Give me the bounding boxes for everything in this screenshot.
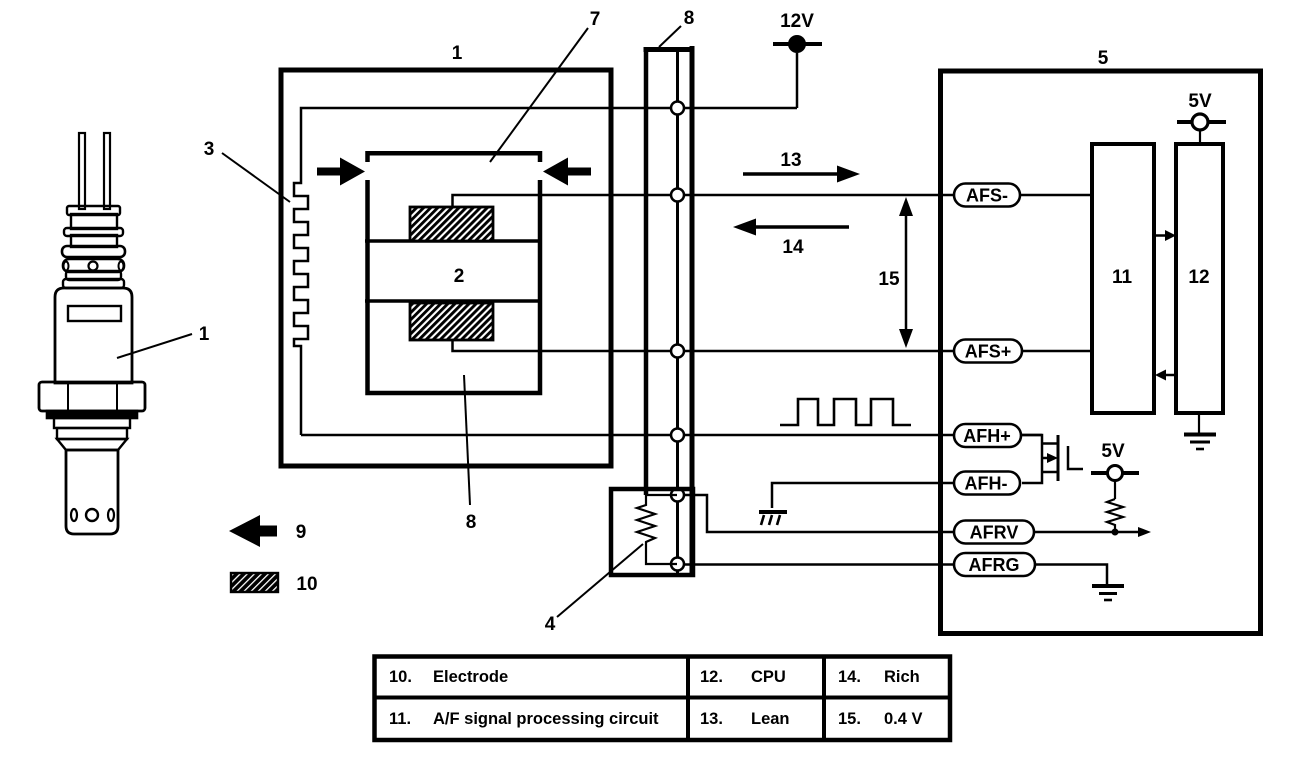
svg-text:1: 1 [199,324,210,345]
processing circuit box 11 [1092,144,1154,413]
svg-text:1: 1 [452,43,463,64]
arrow 14 (rich) [733,219,849,259]
wire AFS- [453,195,1093,208]
junction node AFS- [671,189,684,202]
svg-text:0.4 V: 0.4 V [884,710,923,728]
pin oval AFRG [954,553,1035,576]
svg-text:12V: 12V [780,11,814,32]
svg-text:13: 13 [780,150,801,171]
pin oval AFS+ [954,340,1022,363]
label 4 leader [545,544,643,635]
table text row 1 [389,668,920,686]
svg-text:5V: 5V [1188,91,1212,112]
12V supply [773,11,822,108]
5V source (AFRV pullup) [1091,441,1139,499]
AFRV output arrow + junction [1034,527,1151,537]
svg-text:Electrode: Electrode [433,668,508,686]
heater wire loop (item 3 castellated) [294,108,797,435]
electrode bottom (item 10 hatched) [410,303,493,340]
wire AFH+ [301,434,1042,437]
svg-text:AFRG: AFRG [969,555,1020,575]
svg-text:10.: 10. [389,668,412,686]
junction node AFRG [671,558,684,571]
electrode top (item 10 hatched) [410,207,493,241]
arrow 11 to 12 [1154,230,1176,241]
junction node AFS+ [671,345,684,358]
svg-text:3: 3 [204,139,215,160]
junction node row 12V [671,102,684,115]
svg-text:Lean: Lean [751,710,790,728]
MOSFET Q heater driver [1022,435,1083,483]
ground (CPU box 12) [1184,413,1216,449]
svg-text:15.: 15. [838,710,861,728]
svg-text:14.: 14. [838,668,861,686]
arrow 13 (lean) [743,150,860,183]
legend table [374,655,950,740]
arrow 12 to 11 [1155,370,1176,381]
pullup resistor zigzag [1107,499,1123,532]
box 4 trimming resistor enclosure [611,489,693,575]
diffusion band (item 2) [365,241,542,301]
element box (item 7) [368,153,541,393]
junction node AFRV [671,489,684,502]
svg-text:A/F signal processing circuit: A/F signal processing circuit [433,710,659,728]
box 1 sensor assembly [281,70,611,466]
pin oval AFS- [954,184,1020,207]
arrow 15 (0.4V span) [878,197,913,348]
wire AFRV jog [684,495,954,532]
resistor R (item 4) [637,495,677,564]
svg-text:AFS+: AFS+ [965,342,1012,362]
label 7 leader [490,9,600,162]
svg-text:13.: 13. [700,710,723,728]
svg-text:8: 8 [684,8,695,29]
wire AFS+ [453,339,1093,351]
label 8 top leader [659,8,694,47]
square wave on AFH+ [780,399,911,425]
svg-text:7: 7 [590,9,601,30]
svg-text:8: 8 [466,512,477,533]
svg-text:12.: 12. [700,668,723,686]
svg-text:AFH+: AFH+ [963,426,1011,446]
svg-text:9: 9 [296,522,307,543]
legend arrow 9 (exhaust gas) [229,515,306,547]
legend electrode patch 10 [231,573,318,595]
svg-text:4: 4 [545,614,556,635]
5V source (CPU) [1177,91,1226,144]
svg-text:14: 14 [782,237,804,258]
svg-text:CPU: CPU [751,668,786,686]
AFRG ground wire [1035,565,1107,585]
svg-text:10: 10 [296,574,317,595]
svg-text:Rich: Rich [884,668,920,686]
sensor body drawing (item 1) [39,133,145,534]
wire AFRG [684,563,954,566]
ground (AFRG) [1092,586,1124,600]
CPU box 12 [1176,144,1223,413]
label 8 lower leader [464,375,476,533]
svg-text:12: 12 [1188,267,1209,288]
svg-text:11: 11 [1112,267,1133,288]
connector strip (item 8) [644,46,695,575]
pin oval AFRV [954,521,1034,544]
svg-text:5: 5 [1098,48,1109,69]
junction node AFH+ [671,429,684,442]
label 3 leader [204,139,290,202]
arrow into element right [543,158,591,186]
svg-text:11.: 11. [389,710,411,728]
pin oval AFH+ [954,424,1021,447]
svg-text:AFRV: AFRV [970,523,1019,543]
svg-text:AFS-: AFS- [966,186,1008,206]
pin oval AFH- [772,472,1020,509]
arrow into element left [317,158,365,186]
svg-text:AFH-: AFH- [965,474,1008,494]
ECU box 5 [941,71,1261,634]
svg-text:2: 2 [454,266,465,287]
table text row 2 [389,710,923,728]
chassis ground (heater) [759,512,787,525]
svg-text:5V: 5V [1101,441,1125,462]
label 1 leader (sensor) [117,324,210,358]
svg-text:15: 15 [878,269,900,290]
